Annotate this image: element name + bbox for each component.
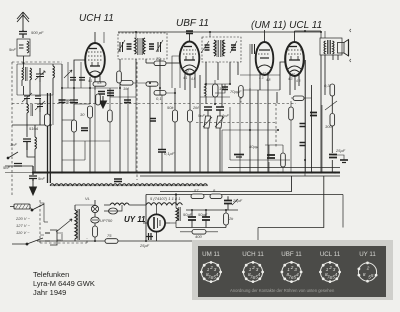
antenna trap LC tank — [17, 39, 30, 63]
coil secondary — [143, 38, 145, 54]
svg-text:50µF: 50µF — [183, 212, 193, 217]
svg-text:4 3: 4 3 — [288, 77, 293, 81]
tube UCH11 — [85, 32, 105, 90]
capacitor UM grid — [250, 44, 258, 88]
capacitor C-ant 500pF — [19, 30, 27, 38]
svg-text:510A: 510A — [29, 126, 39, 131]
wire: feed from power right L inner — [160, 176, 292, 192]
svg-text:50µ: 50µ — [66, 99, 73, 104]
coil IF2 sec — [205, 84, 207, 104]
variable capacitor: tuning gang 2 — [35, 99, 45, 113]
trimmer left — [120, 42, 123, 52]
svg-text:UY 11: UY 11 — [124, 215, 146, 224]
resistor det — [213, 80, 219, 104]
svg-text:4 3: 4 3 — [259, 76, 264, 80]
svg-text:1M: 1M — [123, 86, 129, 91]
svg-text:2M: 2M — [192, 105, 199, 110]
capacitor 100pF det — [206, 84, 230, 93]
switch mains b — [26, 238, 43, 245]
heater chain — [104, 203, 182, 205]
capacitor dark UCH — [107, 91, 114, 96]
socket pin numbers — [206, 265, 374, 280]
wire: dashed link volume — [196, 122, 276, 124]
capacitor to ground left — [29, 166, 37, 181]
resistor right mid 300 — [325, 101, 337, 126]
resistor 57 — [191, 194, 204, 199]
svg-text:8: 8 — [363, 272, 366, 277]
resistor osc anode — [146, 82, 158, 86]
svg-text:(UM 11) UCL 11: (UM 11) UCL 11 — [251, 20, 322, 31]
svg-text:4 8: 4 8 — [296, 79, 301, 83]
svg-text:2: 2 — [209, 265, 213, 270]
ground: UCH cathode arrow — [100, 96, 107, 108]
label Telefunken block — [33, 270, 95, 297]
socket UY11 — [358, 263, 376, 281]
svg-text:4 1: 4 1 — [88, 79, 93, 83]
socket UCL11 — [320, 262, 339, 281]
svg-text:50k: 50k — [167, 105, 174, 110]
svg-text:UBF 11: UBF 11 — [176, 18, 209, 29]
switch mains a — [30, 204, 44, 211]
lamp: dial light — [91, 200, 98, 217]
svg-text:UP750: UP750 — [100, 218, 113, 223]
tube UCL11 — [285, 31, 304, 95]
svg-text:30: 30 — [80, 112, 85, 117]
capacitor 62-col — [59, 100, 89, 131]
svg-text:UM 11: UM 11 — [202, 251, 220, 258]
svg-text:500 pF: 500 pF — [31, 30, 44, 35]
resistor mid 110 — [108, 110, 113, 122]
svg-text:400: 400 — [195, 234, 202, 239]
choke filter — [176, 195, 180, 228]
wire: dashed chassis box top edge — [12, 61, 62, 63]
socket pins — [210, 261, 213, 264]
svg-text:5nF: 5nF — [3, 165, 10, 170]
capacitor UCH grid — [70, 100, 78, 120]
resistor vert pair UBF — [173, 88, 193, 172]
wire: input mesh — [17, 64, 62, 172]
wire: osc coupling — [53, 95, 74, 125]
tube UY11 — [143, 214, 170, 241]
svg-text:0,1µF: 0,1µF — [164, 151, 175, 156]
svg-text:25µF: 25µF — [335, 148, 346, 153]
wire: right column mesh — [222, 88, 340, 172]
svg-text:VL: VL — [85, 196, 90, 201]
potentiometer volume — [203, 116, 224, 172]
capacitor electrolytic 1 — [224, 196, 238, 210]
capacitor 27uF mid — [150, 119, 156, 122]
antenna — [17, 12, 29, 30]
socket UCH11 — [243, 262, 262, 281]
svg-text:1nF: 1nF — [10, 142, 17, 147]
svg-text:5: 5 — [371, 273, 374, 278]
resistor 8 — [210, 194, 222, 199]
variable capacitor: tuning gang 1 — [35, 68, 45, 82]
wire: power top rail — [146, 195, 343, 228]
capacitor row top-left pair — [70, 78, 85, 81]
capacitor 27uF af — [267, 155, 275, 158]
IF transformer 1 (dashed box) — [118, 33, 167, 59]
wire: feed from power right L outer — [258, 176, 324, 228]
resistor hatched UCH — [96, 94, 101, 105]
capacitor pair far right — [300, 124, 306, 146]
svg-text:UBF 11: UBF 11 — [281, 251, 302, 258]
svg-text:4 8: 4 8 — [191, 77, 196, 81]
svg-text:2: 2 — [328, 265, 332, 270]
svg-text:70µµF: 70µµF — [230, 89, 242, 94]
svg-text:UY 11: UY 11 — [359, 251, 376, 258]
svg-text:110 V ~: 110 V ~ — [16, 230, 30, 235]
wire: osc section — [12, 95, 53, 137]
ground: right — [332, 155, 348, 163]
svg-text:Lyra-M 6449 GWK: Lyra-M 6449 GWK — [33, 279, 95, 288]
wire: IF2 connections — [206, 32, 238, 84]
svg-text:2: 2 — [251, 265, 255, 270]
capacitor p — [205, 45, 210, 50]
wire: UBF left connections — [150, 56, 180, 172]
svg-text:Jahr 1949: Jahr 1949 — [33, 288, 66, 297]
svg-text:Anordnung der Kontakte der: Anordnung der Kontakte der Röhren von un… — [230, 288, 335, 293]
svg-text:Telefunken: Telefunken — [33, 270, 69, 279]
svg-text:5nF: 5nF — [9, 47, 16, 52]
svg-text:100: 100 — [219, 86, 226, 91]
svg-text:1nF: 1nF — [222, 113, 229, 118]
resistor under UCH — [117, 71, 122, 83]
resistor right top 0.3 — [330, 84, 335, 96]
capacitor 50uF a — [188, 210, 196, 228]
wire: left bus taps — [5, 166, 33, 173]
wire: misc verticals upper mid — [62, 32, 290, 172]
coil primary — [135, 38, 137, 54]
speaker — [338, 29, 352, 62]
socket UBF11 — [282, 262, 301, 281]
antenna coil T1 — [22, 63, 32, 86]
svg-text:4: 4 — [296, 272, 299, 277]
wire: main bus (thick) — [33, 172, 340, 174]
svg-text:4 8: 4 8 — [97, 81, 102, 85]
coil p — [214, 40, 216, 56]
svg-text:127 V ~: 127 V ~ — [16, 223, 31, 228]
capacitor primary — [127, 44, 132, 49]
power box left edge — [145, 195, 147, 242]
wire: bottom power row — [37, 228, 258, 242]
wire: HT rail top — [118, 31, 321, 33]
wire: AVC dashed line — [12, 103, 296, 105]
resistor 1M below IF1 — [120, 81, 150, 86]
output transformer — [320, 38, 342, 55]
IF transformer 2 (dashed box) — [201, 37, 241, 62]
capacitor s — [231, 45, 236, 50]
svg-text:4 1: 4 1 — [183, 76, 188, 80]
wire: anode to transformer — [295, 31, 339, 176]
svg-text:25µF: 25µF — [139, 243, 150, 248]
switch wave band — [7, 152, 18, 159]
svg-text:75: 75 — [107, 233, 112, 238]
voltage dropper — [56, 205, 80, 241]
ground: chassis arrow — [30, 181, 37, 195]
oscillator trimmer caps — [22, 93, 41, 104]
wire: UCL grid coupling — [240, 62, 285, 90]
svg-text:UCH 11: UCH 11 — [242, 251, 264, 258]
resistor AVC 1 — [239, 86, 244, 104]
resistor grid UBF — [154, 61, 180, 66]
wire: power internal — [157, 205, 239, 228]
tube socket panel (photo) — [192, 240, 393, 300]
svg-text:UCL 11: UCL 11 — [320, 251, 341, 258]
coil L2 — [53, 64, 55, 84]
lamp: pilot — [91, 217, 99, 223]
wire: dashed chassis box left edge — [11, 62, 13, 196]
mains selector dashed box — [40, 200, 87, 243]
svg-text:0,3: 0,3 — [324, 83, 330, 88]
svg-text:5nF: 5nF — [38, 176, 45, 181]
resistor bleeder — [224, 210, 229, 228]
plug mains — [45, 230, 63, 245]
svg-text:70: 70 — [156, 56, 161, 61]
wire: AVC dashed corner — [275, 104, 277, 149]
wire: right hand vertical group — [306, 55, 333, 172]
wire: UCH cathode network — [62, 60, 118, 104]
wire: mains cord left — [10, 207, 27, 245]
fuse round — [104, 205, 122, 214]
capacitor under UCH pins — [98, 92, 131, 103]
oscillator coil L3 — [27, 104, 33, 125]
resistor 700 — [289, 107, 294, 120]
capacitor above UBF — [186, 31, 193, 36]
coil L4 — [35, 125, 37, 155]
wire: osc to bus — [5, 150, 35, 172]
capacitor padder — [23, 139, 31, 150]
tube UM11 (magic eye) — [256, 30, 274, 90]
svg-text:5nF: 5nF — [198, 113, 205, 118]
capacitor 5nF input — [14, 164, 22, 167]
resistor 0.1M — [154, 91, 175, 150]
svg-text:4 8: 4 8 — [266, 78, 271, 82]
resistor UCH cathode — [88, 106, 93, 172]
capacitor 25uF — [146, 233, 153, 240]
svg-text:0,1: 0,1 — [156, 96, 162, 101]
svg-text:4: 4 — [335, 272, 338, 277]
svg-text:25µF: 25µF — [232, 198, 243, 203]
mechanical link: tuning shaft (thick vertical) — [48, 93, 51, 183]
capacitor secondary — [149, 44, 154, 49]
resistor mains hatched — [14, 204, 30, 209]
capacitor 25uF right — [329, 155, 337, 158]
pin digits under tubes — [88, 69, 301, 85]
capacitor 0.1uF — [158, 150, 166, 173]
resistor R osc — [45, 114, 51, 126]
svg-text:50µµ: 50µµ — [249, 144, 259, 149]
capacitor 50uF b — [202, 210, 210, 228]
svg-text:220 V ~: 220 V ~ — [15, 216, 31, 221]
tube UBF11 — [180, 36, 200, 95]
svg-text:300: 300 — [325, 124, 332, 129]
svg-text:UCH 11: UCH 11 — [79, 13, 114, 24]
svg-text:4: 4 — [258, 272, 261, 277]
svg-text:2: 2 — [366, 265, 370, 270]
resistor 400 — [180, 230, 218, 235]
capacitor 5nF det out — [204, 107, 212, 116]
socket UM11 — [201, 262, 220, 281]
svg-text:2: 2 — [290, 265, 294, 270]
svg-text:5 (74107) 1 1 8 1: 5 (74107) 1 1 8 1 — [150, 196, 180, 201]
resistor R 50k left — [72, 120, 77, 172]
resistor 75 — [105, 239, 118, 244]
capacitor 50uF right — [310, 113, 317, 116]
resistor 0.3M horizontal — [291, 96, 312, 100]
coil s — [223, 40, 225, 56]
wire: IF1 connections — [120, 32, 160, 88]
value labels small — [3, 30, 346, 248]
resistor row UCH anode — [93, 82, 106, 86]
capacitor 1nF det out — [216, 107, 224, 116]
svg-text:4: 4 — [216, 272, 219, 277]
svg-text:50µF: 50µF — [198, 212, 208, 217]
wire: selector leads — [40, 203, 95, 241]
ground: detector — [234, 155, 244, 158]
wire: bus lower — [140, 175, 340, 177]
svg-text:57: 57 — [194, 188, 199, 193]
wire: dashed vertical mid — [136, 62, 138, 180]
resistor ballast — [93, 223, 98, 241]
capacitor on band — [114, 179, 122, 182]
resistor af — [281, 153, 286, 167]
mechanical link: dial cord (scalloped band) — [50, 184, 208, 186]
trimmer right — [158, 42, 161, 52]
